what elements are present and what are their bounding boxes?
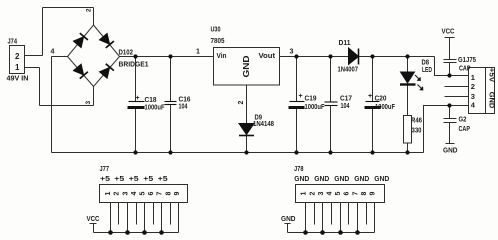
svg-text:Vin: Vin bbox=[217, 51, 227, 60]
junction G1 / J75 pin1 bbox=[447, 73, 451, 77]
svg-text:1: 1 bbox=[301, 191, 308, 195]
wire rail bridge to U30 bbox=[120, 56, 214, 58]
svg-text:7: 7 bbox=[352, 191, 359, 195]
svg-text:2: 2 bbox=[86, 8, 93, 12]
svg-text:CAP: CAP bbox=[459, 64, 471, 73]
junction C18 top bbox=[133, 54, 137, 58]
junction J77 pin7 bbox=[159, 230, 164, 235]
junction C16 bottom bbox=[168, 150, 172, 154]
junction C16 top bbox=[168, 54, 172, 58]
svg-text:J77: J77 bbox=[100, 166, 110, 173]
svg-text:GND: GND bbox=[374, 174, 390, 183]
junction J77 pin1 bbox=[108, 230, 113, 235]
wire J74 pin1 bbox=[25, 67, 40, 69]
svg-text:3: 3 bbox=[471, 92, 475, 101]
GND symbol J78 bbox=[285, 224, 291, 233]
capacitor C20 plates bbox=[365, 102, 381, 108]
wire bottom ground rail bbox=[52, 152, 424, 154]
svg-text:+5: +5 bbox=[114, 174, 124, 183]
wire top rail bbox=[43, 7, 94, 9]
wire rail U30 Vout to D11 bbox=[280, 56, 349, 58]
J78 long leads pins 1,3,5,7,9 bbox=[306, 203, 375, 233]
connector J75 divider bbox=[485, 68, 487, 114]
svg-text:8: 8 bbox=[361, 191, 368, 195]
svg-text:1: 1 bbox=[196, 49, 200, 56]
svg-text:6: 6 bbox=[148, 191, 155, 195]
wire J75 pin3 stub bbox=[445, 96, 469, 98]
diode D9 symbol bbox=[239, 124, 254, 136]
svg-text:1N4148: 1N4148 bbox=[253, 121, 274, 128]
svg-text:6: 6 bbox=[344, 191, 351, 195]
wire bridge top lead bbox=[93, 8, 95, 26]
svg-text:GND: GND bbox=[443, 146, 458, 155]
junction J77 pin3 bbox=[125, 230, 130, 235]
capacitor C18 plates bbox=[128, 102, 145, 108]
wire U30 pin2 lead bbox=[246, 85, 248, 124]
wire pin4 down to ground rail bbox=[51, 57, 53, 153]
wire corner down to J75 pin1 bbox=[435, 57, 469, 76]
svg-text:1000uF: 1000uF bbox=[145, 105, 166, 112]
svg-text:2: 2 bbox=[15, 52, 20, 61]
wire bridge pin4 bbox=[52, 56, 68, 58]
svg-text:7: 7 bbox=[157, 191, 164, 195]
capacitor C16 plates bbox=[165, 102, 177, 105]
svg-text:J78: J78 bbox=[294, 166, 304, 173]
wire to bridge bottom bbox=[40, 105, 94, 107]
bridge diode bottom-left bbox=[73, 64, 88, 79]
bridge diode top-left bbox=[73, 33, 88, 48]
VCC symbol right bbox=[445, 38, 455, 60]
svg-text:3: 3 bbox=[290, 49, 294, 56]
svg-text:+5: +5 bbox=[158, 174, 168, 183]
svg-text:49V IN: 49V IN bbox=[7, 74, 29, 83]
LED D8 symbol bbox=[400, 72, 423, 90]
wire J74 pin2 to riser bbox=[25, 55, 43, 57]
svg-text:BRIDGE1: BRIDGE1 bbox=[119, 60, 149, 69]
svg-text:3: 3 bbox=[85, 101, 92, 105]
bridge D102 diamond bbox=[68, 25, 120, 87]
resistor R46 body bbox=[404, 116, 412, 144]
svg-text:3: 3 bbox=[122, 191, 129, 195]
junction C19 top bbox=[294, 54, 298, 58]
svg-text:D102: D102 bbox=[119, 48, 134, 57]
J77 short leads pins 2,4,6,8 bbox=[119, 203, 171, 225]
capacitor G2 leads and plates bbox=[444, 106, 457, 144]
svg-text:C20: C20 bbox=[375, 94, 387, 103]
resistor R46 bottom lead bbox=[407, 143, 409, 153]
wire rail D11 to corner bbox=[359, 56, 435, 58]
svg-text:+5: +5 bbox=[100, 174, 110, 183]
bridge diode bottom-right bbox=[99, 64, 114, 79]
svg-text:4: 4 bbox=[131, 191, 138, 195]
regulator U30 box bbox=[214, 48, 280, 86]
junction D8 top bbox=[405, 54, 409, 58]
svg-text:Vout: Vout bbox=[259, 51, 276, 60]
diode D11 symbol bbox=[349, 48, 359, 65]
connector J75 box bbox=[469, 68, 495, 114]
svg-text:7805: 7805 bbox=[211, 36, 225, 45]
svg-text:LED: LED bbox=[422, 67, 432, 74]
J77 long leads pins 1,3,5,7,9 bbox=[111, 203, 179, 233]
svg-text:D8: D8 bbox=[422, 60, 430, 67]
junction J78 pin3 bbox=[320, 230, 325, 235]
svg-text:8: 8 bbox=[165, 191, 172, 195]
svg-text:9: 9 bbox=[174, 191, 181, 195]
svg-text:+: + bbox=[136, 95, 140, 102]
wire ground riser right bbox=[424, 106, 469, 153]
svg-text:+5V: +5V bbox=[488, 68, 497, 83]
junction J78 pin1 bbox=[303, 230, 308, 235]
diode D9 bottom lead bbox=[246, 136, 248, 153]
svg-text:1N4007: 1N4007 bbox=[338, 67, 359, 74]
capacitor C16 leads bbox=[170, 57, 172, 153]
capacitor C20 leads bbox=[372, 57, 374, 153]
capacitor C19 leads bbox=[296, 57, 298, 153]
svg-text:+: + bbox=[299, 93, 303, 100]
connector J74 bbox=[10, 46, 25, 74]
svg-text:GND: GND bbox=[314, 174, 330, 183]
junction J77 pin5 bbox=[142, 230, 147, 235]
svg-text:G2: G2 bbox=[459, 115, 467, 124]
junction G2 / J75 pin4 bbox=[447, 103, 451, 107]
svg-text:GND: GND bbox=[294, 174, 310, 183]
svg-text:D11: D11 bbox=[339, 38, 351, 47]
junction C18 bottom bbox=[133, 150, 137, 154]
capacitor C17 plates bbox=[325, 102, 338, 106]
capacitor C17 leads bbox=[330, 57, 332, 153]
svg-text:J74: J74 bbox=[8, 37, 18, 46]
junction C20 top bbox=[370, 54, 374, 58]
svg-text:+5: +5 bbox=[129, 174, 139, 183]
svg-text:C16: C16 bbox=[179, 95, 191, 104]
svg-text:GND: GND bbox=[354, 174, 370, 183]
svg-text:5: 5 bbox=[140, 191, 147, 195]
J77 VCC bus bbox=[94, 232, 179, 234]
svg-text:1: 1 bbox=[15, 63, 20, 72]
capacitor C18 leads bbox=[135, 57, 137, 153]
svg-text:2: 2 bbox=[309, 191, 316, 195]
junction C20 bottom bbox=[370, 150, 374, 154]
bridge diode top-right bbox=[99, 33, 114, 48]
wire riser to top rail bbox=[42, 8, 44, 56]
svg-text:GND: GND bbox=[281, 214, 296, 223]
wire bridge bottom lead bbox=[93, 87, 95, 106]
junction D9 bottom bbox=[244, 150, 248, 154]
svg-text:9: 9 bbox=[370, 191, 377, 195]
J77 pin numbers (rotated) bbox=[105, 191, 181, 195]
wire pin1 riser down bbox=[39, 68, 41, 106]
svg-text:2: 2 bbox=[114, 191, 121, 195]
junction R46 bottom bbox=[405, 150, 409, 154]
svg-text:+: + bbox=[368, 93, 372, 100]
svg-text:R46: R46 bbox=[411, 118, 422, 125]
wire J75 pin2 stub bbox=[445, 86, 469, 88]
connector J77 box bbox=[100, 185, 188, 203]
svg-text:4: 4 bbox=[51, 49, 55, 56]
svg-text:GND: GND bbox=[488, 92, 497, 109]
svg-text:3: 3 bbox=[318, 191, 325, 195]
svg-text:2: 2 bbox=[238, 100, 245, 104]
J78 short leads pins 2,4,6,8 bbox=[315, 203, 367, 225]
LED D8 top lead bbox=[407, 57, 409, 73]
svg-text:330: 330 bbox=[412, 128, 422, 135]
svg-text:VCC: VCC bbox=[87, 214, 100, 223]
svg-text:104: 104 bbox=[341, 103, 350, 110]
svg-text:VCC: VCC bbox=[442, 27, 455, 36]
svg-text:2: 2 bbox=[471, 82, 475, 91]
svg-text:GND: GND bbox=[242, 55, 251, 77]
svg-text:4: 4 bbox=[327, 191, 334, 195]
connector J78 box bbox=[296, 185, 385, 203]
svg-text:1000uF: 1000uF bbox=[375, 104, 396, 111]
junction J78 pin7 bbox=[355, 230, 360, 235]
junction J78 pin5 bbox=[338, 230, 343, 235]
svg-text:1000uF: 1000uF bbox=[305, 104, 326, 111]
junction C19 bottom bbox=[294, 150, 298, 154]
svg-text:GND: GND bbox=[334, 174, 350, 183]
J78 pin numbers (rotated) bbox=[301, 191, 377, 195]
svg-text:C19: C19 bbox=[305, 94, 317, 103]
LED D8 to resistor lead bbox=[407, 86, 409, 116]
VCC symbol J77 bbox=[90, 224, 97, 233]
capacitor C19 plates bbox=[289, 102, 305, 108]
svg-text:1: 1 bbox=[105, 191, 112, 195]
svg-text:5: 5 bbox=[335, 191, 342, 195]
capacitor G1 plates bbox=[444, 60, 457, 76]
ground bar G2 bbox=[446, 143, 455, 145]
junction C17 bottom bbox=[328, 150, 332, 154]
svg-text:104: 104 bbox=[179, 104, 188, 111]
svg-text:C18: C18 bbox=[145, 95, 157, 104]
svg-text:C17: C17 bbox=[340, 94, 352, 103]
svg-text:+5: +5 bbox=[143, 174, 153, 183]
svg-text:U30: U30 bbox=[211, 25, 221, 34]
junction C17 top bbox=[328, 54, 332, 58]
svg-text:1: 1 bbox=[471, 73, 475, 82]
J78 GND bus bbox=[288, 232, 375, 234]
svg-text:CAP: CAP bbox=[459, 124, 471, 133]
